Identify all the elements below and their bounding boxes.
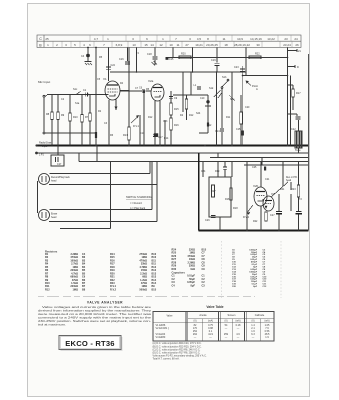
svg-text:S1c: S1c bbox=[73, 88, 78, 91]
svg-text:(mA): (mA) bbox=[265, 320, 270, 323]
svg-text:20,26,25: 20,26,25 bbox=[206, 43, 218, 47]
svg-text:C13: C13 bbox=[163, 120, 168, 123]
svg-text:15: 15 bbox=[144, 43, 148, 47]
svg-text:Valve: Valve bbox=[166, 315, 173, 318]
svg-text:C15: C15 bbox=[169, 58, 174, 61]
svg-text:R17: R17 bbox=[211, 190, 216, 193]
svg-text:24: 24 bbox=[294, 37, 298, 41]
svg-text:12: 12 bbox=[159, 43, 163, 47]
svg-text:J.P1: J.P1 bbox=[39, 154, 44, 157]
svg-text:input: input bbox=[42, 145, 48, 148]
svg-text:Valve Table: Valve Table bbox=[206, 305, 223, 309]
svg-text:(mA): (mA) bbox=[208, 320, 213, 323]
svg-text:26: 26 bbox=[295, 43, 299, 47]
svg-text:1.9: 1.9 bbox=[265, 336, 269, 339]
svg-text:500kΩ: 500kΩ bbox=[139, 288, 147, 291]
svg-text:14: 14 bbox=[150, 43, 154, 47]
svg-text:C18: C18 bbox=[147, 53, 152, 56]
svg-text:R20: R20 bbox=[181, 53, 186, 56]
svg-text:R.V.2: R.V.2 bbox=[243, 216, 250, 219]
svg-text:11: 11 bbox=[176, 43, 179, 47]
svg-text:10,9: 10,9 bbox=[237, 37, 243, 41]
svg-text:27: 27 bbox=[185, 43, 189, 47]
svg-text:Rec or P.B.: Rec or P.B. bbox=[286, 176, 298, 179]
svg-text:18: 18 bbox=[224, 43, 228, 47]
svg-text:R12: R12 bbox=[148, 116, 153, 119]
svg-text:connected to a 240V supply wit: connected to a 240V supply with the main… bbox=[38, 316, 152, 320]
svg-text:23,24: 23,24 bbox=[283, 43, 291, 47]
svg-text:C24: C24 bbox=[201, 170, 206, 173]
svg-text:Screen: Screen bbox=[228, 314, 237, 317]
svg-text:R17: R17 bbox=[296, 92, 301, 95]
svg-text:C20: C20 bbox=[245, 106, 250, 109]
svg-text:11: 11 bbox=[222, 37, 225, 41]
svg-text:C15: C15 bbox=[236, 128, 241, 131]
svg-text:Mic Input: Mic Input bbox=[38, 80, 50, 84]
svg-text:230-250V position. Switches w: 230-250V position. Switches were set at … bbox=[38, 319, 151, 323]
svg-text:S1a: S1a bbox=[75, 102, 80, 105]
svg-text:C16: C16 bbox=[119, 58, 124, 61]
svg-text:R10: R10 bbox=[73, 116, 78, 119]
svg-text:head: head bbox=[51, 180, 57, 183]
svg-text:VALVE ANALYSER: VALVE ANALYSER bbox=[87, 301, 123, 305]
svg-text:R12: R12 bbox=[189, 114, 194, 117]
svg-text:C21: C21 bbox=[265, 178, 270, 181]
svg-text:19,21: 19,21 bbox=[195, 43, 203, 47]
svg-text:B15: B15 bbox=[152, 288, 157, 291]
svg-text:p = Play back: p = Play back bbox=[130, 207, 146, 210]
svg-text:30: 30 bbox=[256, 43, 260, 47]
svg-text:D: D bbox=[297, 66, 299, 69]
svg-text:derived from information suppl: derived from information supplied by the… bbox=[38, 309, 152, 313]
svg-text:r = Record: r = Record bbox=[130, 202, 142, 205]
svg-text:S2b: S2b bbox=[196, 112, 201, 115]
svg-text:R19: R19 bbox=[215, 170, 220, 173]
svg-text:R13: R13 bbox=[123, 134, 128, 137]
svg-text:R11: R11 bbox=[226, 116, 231, 119]
svg-text:A: A bbox=[256, 87, 258, 91]
svg-text:1MΩ: 1MΩ bbox=[73, 288, 78, 291]
svg-text:C25: C25 bbox=[252, 166, 257, 169]
svg-text:4,5: 4,5 bbox=[197, 37, 202, 41]
svg-text:C: C bbox=[39, 37, 42, 41]
svg-text:C17: C17 bbox=[57, 163, 62, 166]
svg-text:S1b: S1b bbox=[222, 76, 227, 79]
svg-text:C24: C24 bbox=[111, 64, 116, 67]
svg-text:S1d: S1d bbox=[209, 87, 214, 90]
svg-text:R.V.1: R.V.1 bbox=[133, 125, 140, 128]
svg-text:C19: C19 bbox=[211, 59, 216, 62]
svg-text:V2 ECC81 {: V2 ECC81 { bbox=[156, 327, 170, 330]
svg-text:(V): (V) bbox=[193, 321, 196, 323]
svg-text:R18: R18 bbox=[233, 207, 238, 210]
svg-text:Total H.T. current, 68 mA.: Total H.T. current, 68 mA. bbox=[153, 358, 180, 361]
svg-text:C17: C17 bbox=[158, 136, 163, 139]
svg-text:R15: R15 bbox=[174, 108, 179, 111]
svg-text:C27: C27 bbox=[270, 214, 275, 217]
svg-text:1kΩ: 1kΩ bbox=[190, 268, 195, 271]
svg-text:23: 23 bbox=[284, 37, 288, 41]
svg-text:R.V.2: R.V.2 bbox=[110, 288, 117, 291]
svg-text:Tone: Tone bbox=[295, 148, 301, 152]
svg-text:trol at maximum.: trol at maximum. bbox=[38, 322, 66, 326]
svg-text:EKCO - RT36: EKCO - RT36 bbox=[65, 339, 114, 348]
svg-text:(mA): (mA) bbox=[236, 320, 241, 323]
svg-text:R12: R12 bbox=[45, 288, 50, 291]
svg-text:C11: C11 bbox=[140, 132, 145, 135]
svg-text:head: head bbox=[286, 180, 292, 182]
svg-text:C14: C14 bbox=[215, 130, 220, 133]
svg-text:C22: C22 bbox=[291, 128, 296, 131]
svg-text:Valve voltages and currents gi: Valve voltages and currents given in the… bbox=[42, 305, 152, 309]
svg-text:V3: V3 bbox=[271, 192, 275, 196]
svg-text:(V): (V) bbox=[251, 321, 254, 323]
svg-text:(V): (V) bbox=[224, 321, 227, 323]
svg-text:R16: R16 bbox=[174, 124, 179, 127]
svg-text:Cathode: Cathode bbox=[255, 314, 265, 317]
svg-text:R23: R23 bbox=[291, 188, 296, 191]
svg-text:6,8,9: 6,8,9 bbox=[116, 43, 123, 47]
svg-text:Anode: Anode bbox=[199, 314, 207, 317]
svg-text:8μF: 8μF bbox=[191, 284, 196, 287]
svg-text:C23: C23 bbox=[234, 66, 239, 69]
svg-text:SWITCH S MARKING: SWITCH S MARKING bbox=[126, 195, 152, 199]
svg-text:C26: C26 bbox=[205, 219, 210, 222]
svg-text:C12: C12 bbox=[207, 124, 212, 127]
svg-text:C10: C10 bbox=[200, 97, 205, 100]
svg-text:R22: R22 bbox=[253, 220, 258, 223]
svg-text:13: 13 bbox=[132, 43, 136, 47]
svg-text:13,22: 13,22 bbox=[267, 37, 275, 41]
svg-text:V4 EZ80: V4 EZ80 bbox=[156, 336, 166, 339]
svg-text:4,7: 4,7 bbox=[94, 37, 99, 41]
svg-text:R14: R14 bbox=[164, 137, 169, 140]
svg-text:10: 10 bbox=[169, 43, 173, 47]
svg-text:14,15,16: 14,15,16 bbox=[250, 37, 262, 41]
svg-text:V1: V1 bbox=[103, 77, 107, 81]
svg-text:R22: R22 bbox=[255, 53, 260, 56]
svg-text:R21: R21 bbox=[280, 188, 285, 191]
svg-text:head: head bbox=[51, 216, 57, 219]
svg-text:25: 25 bbox=[45, 37, 49, 41]
svg-text:V2a: V2a bbox=[148, 79, 154, 83]
svg-text:R16: R16 bbox=[225, 198, 230, 201]
svg-text:were measured on a 20,000 Ω/vo: were measured on a 20,000 Ω/volt meter. … bbox=[38, 312, 152, 316]
svg-text:28,29,16,22: 28,29,16,22 bbox=[234, 43, 250, 47]
svg-text:S2a: S2a bbox=[230, 98, 235, 101]
svg-text:V2b: V2b bbox=[253, 184, 259, 188]
